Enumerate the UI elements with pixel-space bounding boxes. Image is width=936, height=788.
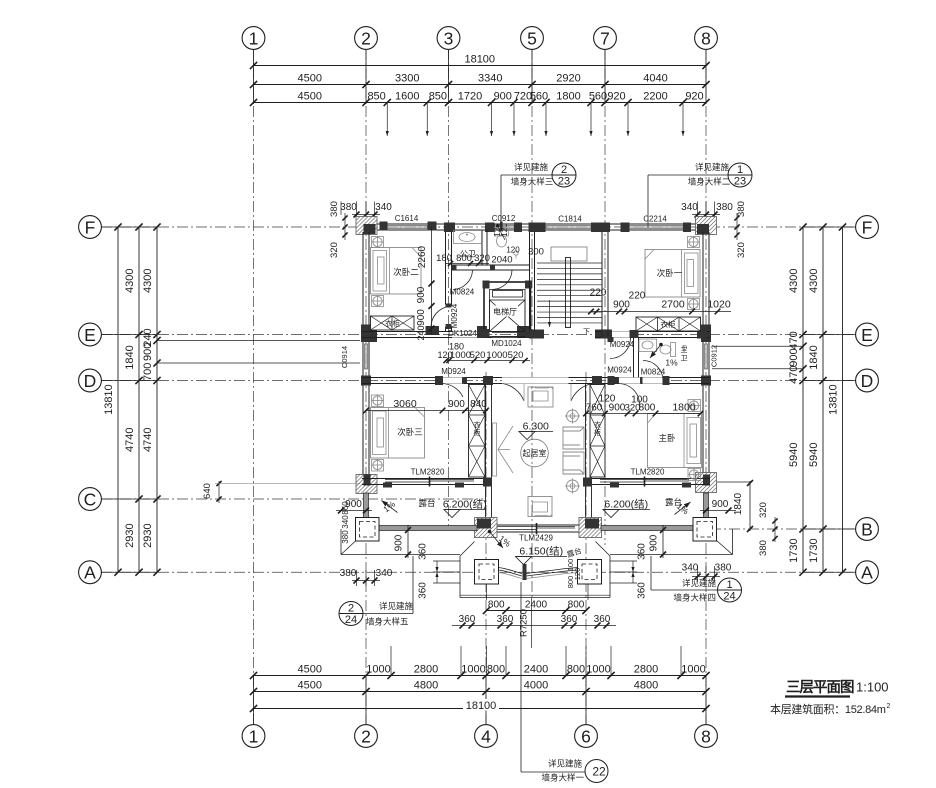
grid bubble B right xyxy=(856,518,879,541)
svg-text:5940: 5940 xyxy=(808,443,820,467)
public bath sink counter xyxy=(454,231,482,244)
R7250 radius note xyxy=(531,598,533,648)
master bath sink xyxy=(639,339,657,352)
bedroom three door arc xyxy=(442,384,464,398)
left dim 640 at C with witness xyxy=(218,481,220,503)
bottom dimension row fine 4500 1000 2800 1000 800 2400 800 1000 2800 1000 xyxy=(254,675,707,677)
terrace dim 900 vertical right xyxy=(662,525,664,558)
bedroom two nightstand lamps xyxy=(372,237,384,248)
svg-text:4800: 4800 xyxy=(634,680,658,692)
svg-text:380: 380 xyxy=(758,540,769,556)
living room double door arcs xyxy=(503,384,525,402)
svg-text:2: 2 xyxy=(361,28,371,48)
svg-text:2200: 2200 xyxy=(643,91,667,103)
svg-text:470: 470 xyxy=(788,331,800,349)
solid witness segments over grid lines xyxy=(253,50,255,105)
living room south wall row B with sliding door TLM2429 xyxy=(477,524,600,526)
svg-text:2: 2 xyxy=(887,703,891,710)
solid witness segments over row lines xyxy=(102,226,158,228)
svg-text:M0924: M0924 xyxy=(607,366,632,375)
svg-text:220: 220 xyxy=(629,291,646,302)
top dimension row 18100 xyxy=(254,65,707,67)
grid bubble 1 bottom xyxy=(242,725,265,748)
svg-text:380: 380 xyxy=(736,201,747,217)
svg-text:M0924: M0924 xyxy=(441,367,466,376)
grid bubble 1 top xyxy=(242,27,265,50)
svg-text:320: 320 xyxy=(329,242,340,258)
svg-text:380: 380 xyxy=(329,201,340,217)
grid bubble 6 bottom xyxy=(575,725,598,748)
terrace eave outline right xyxy=(732,529,734,555)
svg-text:F: F xyxy=(85,217,96,237)
dim chain corridor 120 1000 520 1000 520 and 180 xyxy=(446,360,530,362)
svg-text:露台: 露台 xyxy=(418,498,435,508)
svg-text:衣柜: 衣柜 xyxy=(385,318,400,328)
svg-text:TLM2429: TLM2429 xyxy=(519,534,553,543)
svg-text:柜: 柜 xyxy=(594,428,601,437)
grid bubble D right xyxy=(856,369,879,392)
svg-text:900: 900 xyxy=(416,309,427,326)
svg-text:6.200(结): 6.200(结) xyxy=(604,498,648,511)
svg-text:3340: 3340 xyxy=(478,73,502,85)
svg-text:2: 2 xyxy=(561,164,567,176)
master nightstand lamps xyxy=(688,400,701,412)
svg-text:D: D xyxy=(84,371,97,391)
svg-text:3: 3 xyxy=(444,28,454,48)
svg-text:起居室: 起居室 xyxy=(523,448,547,458)
svg-text:C0912: C0912 xyxy=(492,214,516,223)
svg-text:22: 22 xyxy=(592,765,606,779)
living room south-east corner hatched column xyxy=(579,518,602,538)
bottom witness lines xyxy=(390,646,392,676)
svg-text:4500: 4500 xyxy=(298,73,322,85)
svg-text:340: 340 xyxy=(681,202,698,213)
svg-text:100: 100 xyxy=(631,395,648,406)
living room sofa lamp north xyxy=(567,410,579,422)
svg-text:次卧二: 次卧二 xyxy=(393,267,419,277)
bedroom three closet vertical xyxy=(469,385,486,478)
wall row E left section under bedroom two xyxy=(362,331,452,333)
window C1814 top wall xyxy=(546,223,591,225)
svg-text:E: E xyxy=(861,325,873,345)
svg-text:M0824: M0824 xyxy=(641,368,666,377)
hatched pilaster top-left corner xyxy=(356,217,377,235)
living room south-west corner hatched column xyxy=(475,518,498,538)
terrace eave outline left xyxy=(340,529,342,555)
svg-text:380: 380 xyxy=(341,530,350,544)
svg-text:360: 360 xyxy=(637,543,648,560)
stair treads xyxy=(537,262,602,264)
door wc arc xyxy=(493,270,513,290)
svg-text:240: 240 xyxy=(416,325,426,340)
master bath left wall xyxy=(633,338,635,378)
master bed xyxy=(648,414,702,468)
svg-text:520: 520 xyxy=(470,350,486,361)
svg-text:2: 2 xyxy=(361,726,371,746)
axis grid line C xyxy=(101,498,483,500)
window C2214 top wall xyxy=(628,223,683,225)
svg-text:120: 120 xyxy=(573,568,582,581)
grid bubble A right xyxy=(856,561,879,584)
svg-text:1000: 1000 xyxy=(366,664,390,676)
porch witness verticals xyxy=(486,584,488,600)
living room right wall on grid 6 xyxy=(585,384,587,527)
bottom dimension row 4500 4800 4000 4800 xyxy=(254,691,707,693)
elevator car door band xyxy=(493,291,523,298)
svg-text:1000: 1000 xyxy=(450,350,471,361)
svg-text:2920: 2920 xyxy=(556,73,580,85)
svg-text:1000: 1000 xyxy=(586,664,610,676)
svg-text:1: 1 xyxy=(249,726,259,746)
svg-text:900: 900 xyxy=(142,343,154,361)
slope arrow 1% porch xyxy=(488,530,492,534)
svg-text:800: 800 xyxy=(567,664,585,676)
svg-text:360: 360 xyxy=(418,543,429,560)
svg-text:1020: 1020 xyxy=(707,299,731,311)
grid bubble C left xyxy=(79,488,102,511)
svg-text:5940: 5940 xyxy=(788,443,800,467)
top wall columns xyxy=(362,222,376,233)
bedroom three closet wall and living room left wall on grid 4 xyxy=(485,384,487,527)
svg-text:6.150(结): 6.150(结) xyxy=(519,545,563,558)
living room sofa chairs east xyxy=(563,427,584,449)
svg-text:360: 360 xyxy=(459,614,476,625)
hatched pilaster bottom-right of master bedroom xyxy=(696,473,717,493)
living room sofa lamp south xyxy=(567,480,579,492)
terrace dim 900 right xyxy=(700,510,736,512)
svg-text:墙身大样一: 墙身大样一 xyxy=(541,773,584,783)
detail bubble 1/24 bottom-right with leader xyxy=(651,589,717,591)
door opening M0824 master bath in row D xyxy=(643,377,663,383)
right dimension column 13810 xyxy=(842,227,844,572)
detail bubble 2/24 bottom-left with leader xyxy=(362,613,413,615)
wall row E stair side blocks xyxy=(529,330,544,339)
svg-text:1000: 1000 xyxy=(486,350,507,361)
window C0912 mullion mark xyxy=(500,222,503,232)
svg-text:800: 800 xyxy=(488,600,505,611)
elevator shaft X xyxy=(490,300,526,332)
svg-text:380: 380 xyxy=(340,568,357,579)
svg-text:340: 340 xyxy=(682,563,699,574)
axis grid line 2 xyxy=(365,49,367,724)
grid bubble 2 top xyxy=(355,27,378,50)
wall row D full width xyxy=(362,377,710,379)
svg-text:180: 180 xyxy=(449,342,464,352)
grid bubble E right xyxy=(856,323,879,346)
porch curved railing xyxy=(499,568,578,574)
svg-text:4300: 4300 xyxy=(788,269,800,293)
svg-text:920: 920 xyxy=(607,91,625,103)
svg-text:2800: 2800 xyxy=(414,664,438,676)
svg-text:C1614: C1614 xyxy=(395,214,419,223)
svg-text:衣: 衣 xyxy=(474,420,481,429)
svg-text:6.300: 6.300 xyxy=(523,421,549,433)
svg-text:220: 220 xyxy=(590,288,607,299)
svg-text:2700: 2700 xyxy=(661,299,685,311)
svg-text:840: 840 xyxy=(470,399,487,410)
detail bubble 1/23 top with leader xyxy=(648,174,728,176)
svg-text:850: 850 xyxy=(429,91,447,103)
left dimension column 13810 xyxy=(117,227,119,572)
porch side lines left with dim 360 360 xyxy=(433,560,460,562)
svg-text:900: 900 xyxy=(712,499,729,510)
axis grid line 1 xyxy=(253,49,255,724)
living room armchair south xyxy=(528,497,552,517)
axis grid line F xyxy=(101,226,855,228)
svg-text:800: 800 xyxy=(456,253,472,264)
svg-text:360: 360 xyxy=(497,614,514,625)
svg-text:900: 900 xyxy=(448,399,465,410)
svg-text:520: 520 xyxy=(508,350,524,361)
left witness lines for window C0914 xyxy=(157,340,360,342)
svg-text:320: 320 xyxy=(474,253,490,264)
svg-text:4000: 4000 xyxy=(524,680,548,692)
svg-text:13810: 13810 xyxy=(828,384,840,415)
door opening M0924 bedroom three in row D xyxy=(441,377,464,383)
row E columns xyxy=(426,326,440,335)
svg-text:2400: 2400 xyxy=(524,664,548,676)
svg-text:850: 850 xyxy=(367,91,385,103)
terrace parapet right vertical xyxy=(704,493,709,518)
svg-text:800: 800 xyxy=(568,600,585,611)
svg-text:详见建施: 详见建施 xyxy=(695,162,730,172)
svg-text:8: 8 xyxy=(701,28,711,48)
svg-text:340: 340 xyxy=(376,568,393,579)
dim chain bedroom one 900 220 2700 1020 xyxy=(591,311,731,313)
hatched pilaster top-right corner xyxy=(696,217,717,235)
svg-text:4040: 4040 xyxy=(643,73,667,85)
svg-text:320: 320 xyxy=(736,242,747,258)
svg-text:5: 5 xyxy=(527,28,537,48)
svg-text:1800: 1800 xyxy=(672,402,696,414)
svg-text:4740: 4740 xyxy=(124,428,136,452)
stair landing outline xyxy=(551,247,587,261)
svg-text:主: 主 xyxy=(681,345,688,354)
svg-text:24: 24 xyxy=(345,614,357,626)
detail bubble 22 bottom-center with leader xyxy=(520,582,522,772)
porch column right xyxy=(578,560,602,585)
svg-text:4500: 4500 xyxy=(298,664,322,676)
stair right wall on grid 7 xyxy=(601,232,603,337)
bedroom one nightstand lamps xyxy=(688,237,700,248)
bedroom one bed xyxy=(645,250,700,298)
right wall columns xyxy=(701,325,711,343)
svg-text:4500: 4500 xyxy=(298,91,322,103)
axis grid line 3 xyxy=(448,49,450,530)
window C0912 top wall xyxy=(492,223,515,225)
top dimension row 4500 3300 3340 2920 4040 xyxy=(254,84,707,86)
elevator shaft corner columns xyxy=(483,281,490,289)
dim chain master 760 900 320 800 1800 with 120 100 xyxy=(586,413,701,415)
svg-text:R7250: R7250 xyxy=(519,609,530,637)
grid bubble E left xyxy=(79,323,102,346)
bedroom three nightstand lamps xyxy=(372,395,384,407)
right dim 1840 320 380 vertical chain xyxy=(749,481,751,531)
bedroom three bed xyxy=(371,408,425,459)
svg-text:A: A xyxy=(861,563,873,583)
grid bubble 8 top xyxy=(695,27,718,50)
svg-text:2930: 2930 xyxy=(142,523,154,547)
bedroom one wardrobe xyxy=(636,317,701,331)
svg-text:C0912: C0912 xyxy=(710,345,719,367)
svg-text:1840: 1840 xyxy=(124,345,136,369)
axis grid line D xyxy=(101,380,855,382)
svg-text:900: 900 xyxy=(416,286,427,303)
svg-text:380: 380 xyxy=(340,202,357,213)
svg-text:700: 700 xyxy=(142,363,154,381)
door M0924 bedroom two arc xyxy=(431,307,449,328)
svg-text:360: 360 xyxy=(594,614,611,625)
door M0824 public bath arc xyxy=(453,270,473,290)
svg-text:13810: 13810 xyxy=(103,384,115,415)
svg-text:1:100: 1:100 xyxy=(856,680,889,695)
svg-text:B: B xyxy=(861,519,873,539)
svg-text:2: 2 xyxy=(348,603,354,615)
svg-text:360: 360 xyxy=(418,582,429,599)
svg-text:详见建施: 详见建施 xyxy=(682,578,717,588)
svg-text:18100: 18100 xyxy=(466,700,497,712)
front porch eave outline xyxy=(459,556,461,598)
bedroom two bed xyxy=(371,248,422,295)
svg-text:DK1024: DK1024 xyxy=(448,329,477,338)
porch dim row 360 marks xyxy=(452,625,616,627)
svg-text:1800: 1800 xyxy=(556,91,580,103)
grid bubble 5 top xyxy=(521,27,544,50)
svg-text:4: 4 xyxy=(481,726,491,746)
opening DK1024 row E xyxy=(452,331,477,333)
window C0912 right wall xyxy=(702,344,704,369)
svg-text:详见建施: 详见建施 xyxy=(514,162,549,172)
wall row E right section bedroom one xyxy=(595,331,710,333)
svg-text:卫: 卫 xyxy=(681,355,688,363)
door opening M0924 bedroom one in row E xyxy=(609,331,632,337)
svg-text:2260: 2260 xyxy=(417,245,428,268)
svg-text:470: 470 xyxy=(788,365,800,383)
svg-text:主卧: 主卧 xyxy=(658,433,676,443)
svg-text:2400: 2400 xyxy=(525,600,548,611)
svg-text:TLM2820: TLM2820 xyxy=(411,468,445,477)
svg-text:340: 340 xyxy=(341,515,350,529)
svg-text:衣: 衣 xyxy=(594,420,601,429)
svg-text:180: 180 xyxy=(436,253,452,264)
svg-text:640: 640 xyxy=(202,483,213,499)
svg-text:560: 560 xyxy=(589,91,607,103)
svg-text:1000: 1000 xyxy=(681,664,705,676)
svg-text:墙身大样二: 墙身大样二 xyxy=(688,177,731,187)
terrace parapet right horizontal row B xyxy=(601,526,693,531)
svg-text:1840: 1840 xyxy=(733,492,744,515)
svg-text:次卧三: 次卧三 xyxy=(397,427,423,437)
svg-text:柜: 柜 xyxy=(474,428,481,437)
svg-text:18100: 18100 xyxy=(464,54,495,66)
svg-text:1%: 1% xyxy=(665,358,678,368)
hatched pilaster bottom-left of bedroom three xyxy=(356,475,377,494)
grid bubble 8 bottom xyxy=(695,725,718,748)
svg-text:120: 120 xyxy=(506,246,520,255)
master closet vertical xyxy=(590,385,605,478)
svg-text:2040: 2040 xyxy=(491,255,512,266)
svg-text:M0924: M0924 xyxy=(610,340,635,349)
svg-text:MD1024: MD1024 xyxy=(491,339,522,348)
svg-text:23: 23 xyxy=(734,176,746,188)
slope arrow 1% terrace right xyxy=(675,502,691,515)
svg-text:衣柜: 衣柜 xyxy=(661,319,676,329)
svg-text:1: 1 xyxy=(249,28,259,48)
svg-text:C0914: C0914 xyxy=(340,346,349,368)
svg-text:860: 860 xyxy=(341,501,350,515)
svg-text:墙身大样三: 墙身大样三 xyxy=(511,177,554,187)
master bath door arc xyxy=(643,361,663,381)
svg-text:C: C xyxy=(84,489,97,509)
svg-text:C2214: C2214 xyxy=(643,215,667,224)
svg-text:4740: 4740 xyxy=(142,428,154,452)
svg-text:D: D xyxy=(861,371,874,391)
row D columns xyxy=(435,376,443,385)
svg-text:380: 380 xyxy=(716,202,733,213)
dim chain bedroom two vertical 2260 900 900 240 xyxy=(431,227,433,335)
grid bubble 3 top xyxy=(437,27,460,50)
grid bubble 2 bottom xyxy=(355,725,378,748)
axis grid line A xyxy=(101,571,855,573)
elevator door MD1024 row E xyxy=(492,332,517,334)
master bedroom door arc xyxy=(619,384,640,405)
svg-text:1: 1 xyxy=(737,164,743,176)
svg-text:560: 560 xyxy=(530,91,548,103)
svg-text:24: 24 xyxy=(723,591,735,603)
svg-text:900: 900 xyxy=(788,348,800,366)
svg-text:电梯厅: 电梯厅 xyxy=(493,307,517,317)
svg-text:920: 920 xyxy=(685,91,703,103)
elevator hall label xyxy=(492,306,518,317)
master bath floor drain xyxy=(682,345,686,349)
axis grid line B xyxy=(710,528,855,530)
grid bubble F right xyxy=(856,216,879,239)
top witness arrows to window edges xyxy=(386,103,388,136)
svg-text:F: F xyxy=(862,217,873,237)
svg-text:3060: 3060 xyxy=(393,398,417,410)
public bath walls xyxy=(452,264,529,266)
axis grid line 6 xyxy=(585,372,587,724)
svg-text:M0824: M0824 xyxy=(450,288,475,297)
svg-text:M0924: M0924 xyxy=(450,303,459,328)
dim 380 320 right of F xyxy=(736,213,738,240)
svg-text:4300: 4300 xyxy=(808,269,820,293)
master bath leader dot xyxy=(659,343,663,347)
porch column left xyxy=(475,560,499,585)
svg-text:墙身大样四: 墙身大样四 xyxy=(673,593,716,603)
bedroom two wardrobe xyxy=(371,316,415,330)
svg-text:4800: 4800 xyxy=(414,680,438,692)
svg-text:三层平面图: 三层平面图 xyxy=(786,679,854,696)
grid bubble F left xyxy=(79,216,102,239)
bottom dimension row 18100 xyxy=(254,708,707,710)
svg-text:1840: 1840 xyxy=(808,345,820,369)
svg-text:1730: 1730 xyxy=(788,538,800,562)
svg-text:6.200(结): 6.200(结) xyxy=(443,498,487,511)
wall row E hall to elevator xyxy=(477,331,492,333)
living room north opening xyxy=(502,377,569,383)
svg-text:1730: 1730 xyxy=(808,538,820,562)
svg-text:1: 1 xyxy=(726,579,732,591)
svg-text:7: 7 xyxy=(600,28,610,48)
exterior wall left on grid 2 xyxy=(362,232,364,485)
right dimension column fine 4300 470 900 470 5940 1730 xyxy=(802,227,804,572)
axis grid line 4 xyxy=(485,372,487,724)
exterior wall top along F xyxy=(362,223,710,225)
exterior wall right on grid 8 xyxy=(702,232,704,485)
svg-text:120: 120 xyxy=(599,394,616,405)
svg-text:6: 6 xyxy=(581,726,591,746)
